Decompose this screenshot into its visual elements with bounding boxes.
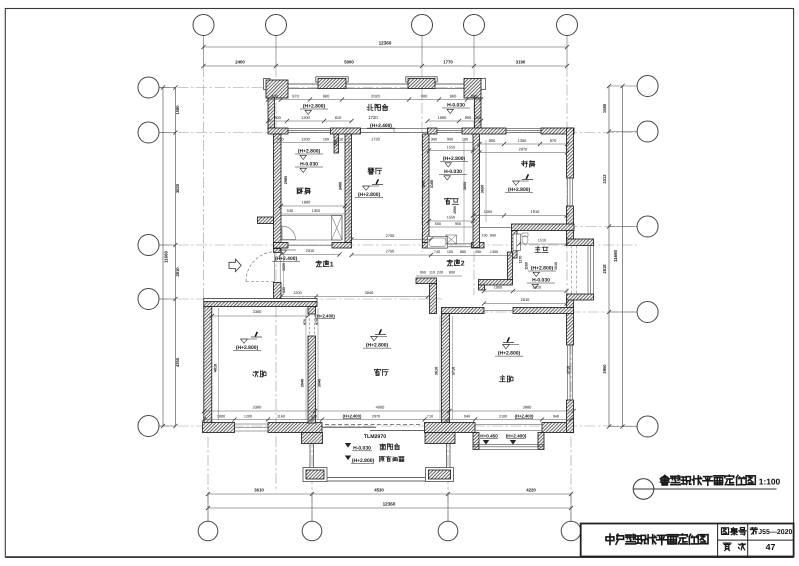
finish flags xyxy=(372,184,383,186)
master bath west wall xyxy=(512,231,518,259)
svg-text:(H+2.800): (H+2.800) xyxy=(508,187,531,193)
svg-text:3710: 3710 xyxy=(567,366,571,374)
svg-text:350: 350 xyxy=(475,115,482,120)
svg-text:47: 47 xyxy=(766,542,776,552)
svg-text:H-0.030: H-0.030 xyxy=(447,103,465,109)
svg-text:1810: 1810 xyxy=(533,286,541,290)
svg-text:100: 100 xyxy=(323,138,329,142)
detail title line xyxy=(633,488,776,490)
svg-text:(H+2.800): (H+2.800) xyxy=(366,343,389,349)
svg-text:100: 100 xyxy=(462,138,468,142)
svg-text:1580: 1580 xyxy=(175,105,180,115)
svg-text:1910: 1910 xyxy=(531,209,540,214)
svg-text:130: 130 xyxy=(482,234,488,238)
kitchen 1890 row xyxy=(281,205,345,207)
title block main text xyxy=(606,534,614,544)
title block xyxy=(581,524,794,557)
bottom dimension chain xyxy=(207,494,209,522)
svg-text:(H+2.800): (H+2.800) xyxy=(298,149,321,155)
svg-text:3950: 3950 xyxy=(602,364,607,374)
left axis circles xyxy=(138,77,159,98)
south rooms dim row B xyxy=(204,419,574,421)
master bath bay window xyxy=(574,246,594,295)
svg-text:950: 950 xyxy=(455,222,461,226)
svg-text:1170: 1170 xyxy=(519,256,523,264)
svg-text:1510: 1510 xyxy=(538,239,546,243)
svg-text:1000: 1000 xyxy=(217,414,225,418)
living room NE jog walls xyxy=(416,278,437,284)
svg-text:1890: 1890 xyxy=(302,200,311,205)
room label master bath xyxy=(535,247,541,253)
svg-text:(H+2.800): (H+2.800) xyxy=(531,266,554,272)
svg-text:(H+2.400): (H+2.400) xyxy=(343,414,362,419)
svg-text:510: 510 xyxy=(277,138,283,142)
svg-text:1000: 1000 xyxy=(494,286,502,290)
svg-text:900: 900 xyxy=(447,138,453,142)
study bottom row 1060/1910 xyxy=(473,215,567,217)
svg-text:2100: 2100 xyxy=(499,414,507,418)
svg-text:1060: 1060 xyxy=(484,210,492,214)
room label living xyxy=(374,369,380,376)
guest bath window xyxy=(437,128,462,130)
balcony east wall xyxy=(475,98,482,128)
svg-text:3610: 3610 xyxy=(254,488,264,493)
svg-text:740: 740 xyxy=(434,250,440,254)
svg-text:1300: 1300 xyxy=(518,138,527,143)
svg-text:2020: 2020 xyxy=(371,94,380,99)
svg-text:H-0.030: H-0.030 xyxy=(444,169,462,175)
svg-text:1720: 1720 xyxy=(368,115,378,120)
svg-text:900: 900 xyxy=(421,94,428,99)
svg-text:11660: 11660 xyxy=(613,249,618,262)
master bedroom east window xyxy=(566,345,568,400)
detail title text xyxy=(661,476,670,486)
corridor2 east wall xyxy=(508,252,513,280)
svg-text:3190: 3190 xyxy=(516,60,526,65)
svg-text:1200: 1200 xyxy=(244,414,252,418)
svg-text:300: 300 xyxy=(431,138,437,142)
svg-text:3840: 3840 xyxy=(365,290,374,295)
svg-text:12360: 12360 xyxy=(383,501,396,506)
svg-text:3360: 3360 xyxy=(253,405,262,410)
svg-text:220: 220 xyxy=(437,271,443,275)
entry arrow xyxy=(229,259,241,271)
svg-text:1550: 1550 xyxy=(453,206,457,214)
interior dim vlines xyxy=(463,140,465,243)
bottom axis circles xyxy=(198,521,218,541)
svg-text:940: 940 xyxy=(553,414,559,418)
room label master bedroom xyxy=(500,376,506,382)
south balcony piers xyxy=(302,433,323,444)
entry door opening xyxy=(273,253,275,283)
svg-text:3040: 3040 xyxy=(301,379,305,387)
kitchen cabinet xyxy=(281,216,342,241)
balcony dim row 1 xyxy=(268,99,481,101)
svg-text:3400: 3400 xyxy=(339,182,343,190)
svg-text:H-0.030: H-0.030 xyxy=(532,278,550,284)
svg-text:2750: 2750 xyxy=(386,249,395,254)
svg-text:940: 940 xyxy=(464,414,470,418)
svg-text:1150: 1150 xyxy=(525,262,529,270)
svg-text:3312: 3312 xyxy=(602,174,607,184)
living/master partition wall xyxy=(442,314,450,423)
svg-text:500: 500 xyxy=(422,181,426,187)
svg-text:870: 870 xyxy=(292,94,299,99)
dining balcony door xyxy=(361,128,428,130)
label original floor xyxy=(379,457,384,462)
svg-text:950: 950 xyxy=(420,271,426,275)
svg-text:4010: 4010 xyxy=(214,364,218,372)
svg-text:1200: 1200 xyxy=(301,115,310,120)
svg-text:1350: 1350 xyxy=(312,209,320,213)
svg-text:980: 980 xyxy=(323,94,330,99)
room label bedroom2 xyxy=(253,371,259,377)
west wing stub wall xyxy=(258,217,274,224)
svg-text:1200: 1200 xyxy=(301,138,309,142)
svg-text:600: 600 xyxy=(435,222,441,226)
corridor2 row2 xyxy=(416,275,462,277)
svg-text:110: 110 xyxy=(429,271,435,275)
svg-text:4250: 4250 xyxy=(175,357,180,367)
title block field names xyxy=(722,528,729,535)
svg-text:2970: 2970 xyxy=(372,414,380,418)
right axis circles xyxy=(637,76,658,97)
svg-text:12360: 12360 xyxy=(379,41,392,46)
guest bath flue box xyxy=(446,235,457,244)
svg-text:1720: 1720 xyxy=(371,137,380,142)
svg-text:3980: 3980 xyxy=(523,405,532,410)
svg-text:2818: 2818 xyxy=(602,264,607,274)
svg-text:3710: 3710 xyxy=(452,367,456,375)
svg-text:1060: 1060 xyxy=(438,115,447,120)
svg-text:4530: 4530 xyxy=(374,488,384,493)
svg-text:4220: 4220 xyxy=(526,488,536,493)
svg-text:2810: 2810 xyxy=(521,297,530,302)
atlas number xyxy=(750,528,757,535)
svg-text:2985: 2985 xyxy=(284,176,288,184)
left dimension chain xyxy=(159,87,176,89)
svg-text:(H+2.800): (H+2.800) xyxy=(358,192,381,198)
dining 2750 rows xyxy=(352,239,432,241)
svg-text:1580: 1580 xyxy=(602,103,607,113)
guest bath rows xyxy=(429,220,473,222)
south balcony level marks xyxy=(345,443,351,448)
corridor2 south wall xyxy=(479,280,513,286)
kitchen east wall xyxy=(345,134,352,243)
svg-text:630: 630 xyxy=(311,414,317,418)
bedroom2 south window xyxy=(235,423,269,425)
room label kitchen xyxy=(297,188,303,194)
svg-text:630: 630 xyxy=(282,287,286,293)
svg-text:2: 2 xyxy=(461,260,465,267)
room label north balcony xyxy=(367,104,373,110)
svg-text:860: 860 xyxy=(450,94,457,99)
west exterior wall xyxy=(274,134,282,249)
kitchen 540/1350 row xyxy=(281,213,345,215)
east exterior wall segments xyxy=(567,128,574,178)
svg-text:1:100: 1:100 xyxy=(759,477,781,487)
svg-text:890: 890 xyxy=(490,234,496,238)
svg-text:390: 390 xyxy=(471,94,478,99)
svg-text:1620: 1620 xyxy=(282,263,286,271)
balcony west wall xyxy=(268,98,275,128)
svg-text:2810: 2810 xyxy=(175,267,180,277)
svg-text:(H+2.800): (H+2.800) xyxy=(236,345,259,351)
svg-text:600: 600 xyxy=(274,115,281,120)
svg-text:2970: 2970 xyxy=(519,147,528,152)
top dimension chain xyxy=(203,36,205,67)
svg-text:H+0.450: H+0.450 xyxy=(480,434,498,439)
svg-text:(H+2.400): (H+2.400) xyxy=(515,414,534,419)
master bedroom bay window (south) xyxy=(473,433,479,450)
svg-text:TLM2970: TLM2970 xyxy=(364,434,386,440)
svg-text:1010: 1010 xyxy=(554,262,558,270)
svg-text:4500: 4500 xyxy=(376,405,385,410)
living room sliding door TLM2970 xyxy=(325,423,422,425)
svg-text:870: 870 xyxy=(550,138,557,143)
bedroom2 3360 top row xyxy=(212,315,308,317)
svg-text:3650: 3650 xyxy=(463,182,467,190)
svg-text:900: 900 xyxy=(489,138,496,143)
svg-text:(H+2.400): (H+2.400) xyxy=(506,434,527,439)
study south wall with door opening xyxy=(512,224,575,231)
master bath door leaf xyxy=(513,234,521,251)
dining east wall / guest bath west wall xyxy=(423,134,430,243)
svg-text:1: 1 xyxy=(330,261,334,268)
svg-text:720: 720 xyxy=(334,140,338,146)
north exterior wall segments xyxy=(268,128,288,134)
south exterior wall segments xyxy=(203,423,235,433)
svg-text:1160: 1160 xyxy=(277,414,285,418)
right dimension chain xyxy=(609,85,637,87)
balcony corner piers xyxy=(264,79,271,90)
corridor2 stub xyxy=(479,285,485,290)
bedroom2 west wall xyxy=(204,307,212,424)
guest bath tub xyxy=(428,237,448,249)
svg-text:1550: 1550 xyxy=(447,216,455,220)
kitchen window xyxy=(288,128,331,130)
guest bath east / study west wall xyxy=(473,134,480,248)
svg-text:3650: 3650 xyxy=(481,185,485,193)
detail title circle xyxy=(633,479,654,500)
corridor1 2010 row xyxy=(281,254,340,256)
svg-text:3360: 3360 xyxy=(253,309,262,314)
room label corridor2 xyxy=(447,260,453,266)
svg-text:(H+2.800): (H+2.800) xyxy=(498,351,521,357)
kitchen south wall with door xyxy=(274,243,289,249)
svg-text:1550: 1550 xyxy=(447,145,455,149)
svg-text:900: 900 xyxy=(465,115,472,120)
svg-text:3820: 3820 xyxy=(175,183,180,193)
svg-text:(H+2.400): (H+2.400) xyxy=(275,256,298,262)
guest bath south wall with door xyxy=(423,243,448,249)
svg-text:1770: 1770 xyxy=(443,60,453,65)
study head dim row xyxy=(480,143,568,145)
south balcony railing xyxy=(309,433,311,482)
south rooms dim row A xyxy=(204,410,574,412)
master bedroom north wall with door xyxy=(442,308,485,314)
top axis circles xyxy=(193,15,214,36)
svg-text:400: 400 xyxy=(271,94,278,99)
svg-text:3100: 3100 xyxy=(430,180,434,188)
room label dining xyxy=(368,168,374,174)
master bath rows xyxy=(519,243,567,245)
kitchen flue box xyxy=(332,216,343,241)
study east window xyxy=(566,178,568,206)
svg-text:(H+2.800): (H+2.800) xyxy=(303,104,326,110)
kitchen sink quarter circle xyxy=(282,226,296,240)
room label south balcony xyxy=(380,444,386,450)
svg-text:H-0.030: H-0.030 xyxy=(300,162,318,168)
svg-text:(H+2.800): (H+2.800) xyxy=(443,156,466,162)
master bath toilet xyxy=(522,236,528,244)
svg-text:100: 100 xyxy=(447,250,453,254)
svg-text:1200: 1200 xyxy=(293,291,301,295)
svg-text:5000: 5000 xyxy=(344,60,354,65)
svg-text:390: 390 xyxy=(475,250,481,254)
svg-text:810: 810 xyxy=(335,115,342,120)
balcony dim row 2 xyxy=(268,120,352,122)
entry door swing arc xyxy=(246,252,276,282)
svg-text:2010: 2010 xyxy=(306,248,315,253)
svg-text:1300: 1300 xyxy=(490,250,498,254)
svg-text:11660: 11660 xyxy=(164,250,169,263)
bedroom2 north wall band xyxy=(204,299,317,302)
bedroom2/living partition wall with door xyxy=(308,307,316,315)
svg-text:3610: 3610 xyxy=(435,367,439,375)
corridor2 dim row xyxy=(429,255,512,257)
svg-text:2750: 2750 xyxy=(386,233,395,238)
svg-text:540: 540 xyxy=(287,209,293,213)
room label guest bath xyxy=(445,198,451,204)
axis grid dash-dot lines xyxy=(203,66,205,305)
svg-text:710: 710 xyxy=(427,414,433,418)
svg-text:2400: 2400 xyxy=(235,60,245,65)
svg-text:890: 890 xyxy=(449,271,455,275)
corridor1 1200/3840 row xyxy=(281,296,428,298)
master bedroom bay opening xyxy=(475,424,542,426)
kitchen head dim row xyxy=(274,142,352,144)
room label corridor1 xyxy=(316,261,322,267)
kitchen flue stub xyxy=(334,134,339,153)
svg-text:880: 880 xyxy=(460,250,466,254)
study window xyxy=(506,128,541,130)
balcony piers with caps xyxy=(316,77,348,82)
svg-text:J55—2020: J55—2020 xyxy=(758,529,792,536)
north balcony railing lines xyxy=(268,83,481,85)
room label study xyxy=(521,161,527,167)
